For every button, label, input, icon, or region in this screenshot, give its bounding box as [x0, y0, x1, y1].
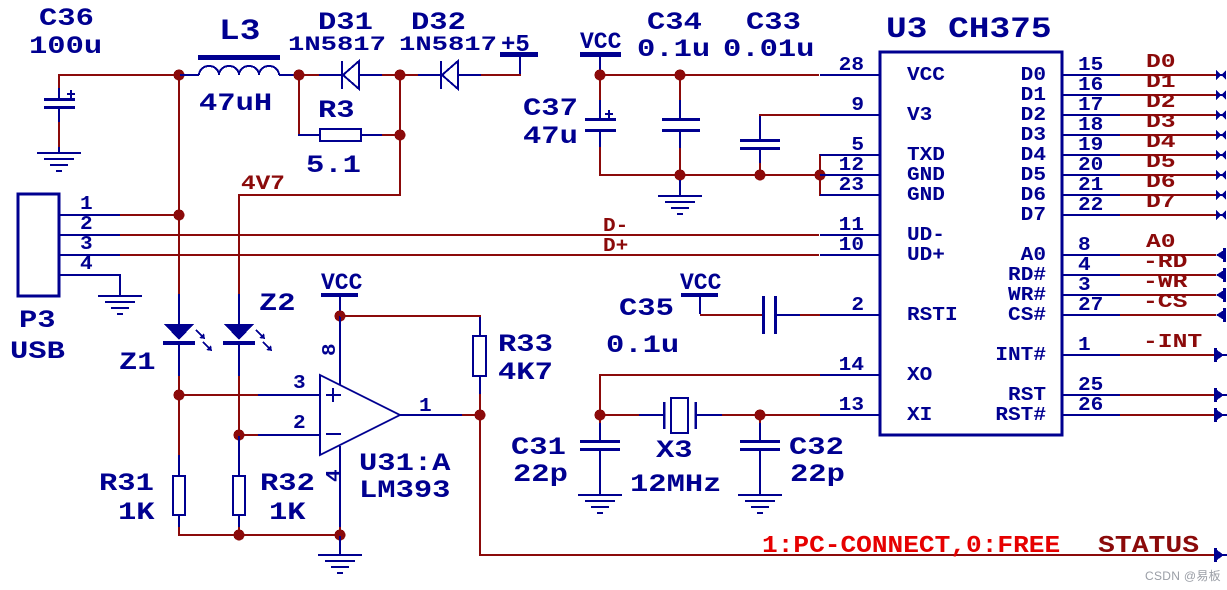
label U31:A [359, 450, 451, 478]
capacitor C32 [740, 416, 780, 494]
svg-text:19: 19 [1078, 135, 1103, 157]
label net -INT [1143, 331, 1202, 353]
svg-text:12: 12 [839, 155, 864, 177]
svg-text:1K: 1K [269, 499, 306, 527]
svg-text:1N5817: 1N5817 [399, 34, 497, 57]
pin 21 D6 of U3 [1021, 175, 1120, 207]
label VCC rail [580, 29, 622, 55]
label D31 [318, 9, 373, 37]
power VCC of C35 [680, 270, 722, 314]
capacitor C34 [662, 76, 700, 174]
svg-text:1N5817: 1N5817 [288, 34, 386, 57]
svg-text:R3: R3 [318, 97, 355, 125]
capacitor C37 [585, 76, 616, 176]
label R32 [260, 470, 315, 498]
junction node A [174, 70, 185, 81]
svg-text:D31: D31 [318, 9, 373, 37]
wire net D- horizontal [120, 234, 819, 236]
svg-text:LM393: LM393 [359, 477, 450, 505]
pin 8 wire [320, 316, 342, 385]
svg-text:4V7: 4V7 [241, 172, 285, 195]
svg-text:8: 8 [320, 343, 342, 356]
svg-text:-WR: -WR [1143, 271, 1188, 293]
junction opamp gnd [335, 530, 346, 541]
pin 17 D2 of U3 [1021, 95, 1120, 127]
svg-text:2: 2 [293, 413, 306, 435]
wire net D4 [1120, 154, 1216, 156]
wire net D2 [1120, 114, 1216, 116]
capacitor C33 [740, 116, 780, 174]
svg-text:Z1: Z1 [119, 349, 156, 377]
svg-text:21: 21 [1078, 175, 1103, 197]
label 47uH [199, 90, 272, 118]
wire pin 25 [1120, 394, 1216, 396]
ground of P3 [98, 295, 142, 315]
svg-text:V3: V3 [907, 105, 932, 127]
svg-text:22: 22 [1078, 195, 1103, 217]
capacitor C31 [580, 416, 620, 494]
svg-text:X3: X3 [656, 437, 693, 465]
svg-text:17: 17 [1078, 95, 1103, 117]
pin 2 wire [239, 413, 320, 436]
svg-text:3: 3 [293, 373, 306, 395]
pin 2 of P3 [59, 214, 120, 236]
pin 4 wire [324, 446, 346, 534]
label Z1 [119, 349, 156, 377]
label net -WR [1143, 271, 1188, 293]
inductor L3 [180, 55, 300, 76]
wire pin 26 [1120, 414, 1216, 416]
svg-text:27: 27 [1078, 295, 1103, 317]
port D3 [1216, 130, 1226, 140]
resistor R32 [233, 436, 245, 534]
svg-text:U3 CH375: U3 CH375 [886, 12, 1052, 46]
label P3 [19, 307, 56, 335]
wire XI to pin 13 [760, 414, 820, 416]
wire net D1 [1120, 94, 1216, 96]
svg-text:5.1: 5.1 [306, 152, 361, 180]
label C33 [746, 9, 801, 37]
wire ground bus [599, 174, 820, 176]
label net D2 [1146, 91, 1176, 113]
port -INT [1214, 348, 1227, 362]
svg-text:C37: C37 [523, 95, 578, 123]
wire net D5 [1120, 174, 1216, 176]
label USB [10, 338, 65, 366]
svg-text:26: 26 [1078, 395, 1103, 417]
ground of op-amp [318, 536, 362, 574]
label 47u [523, 123, 578, 151]
wire XO [599, 374, 820, 414]
label C35 [619, 295, 674, 323]
pin 10 UD+ of U3 [820, 235, 945, 267]
svg-text:WR#: WR# [1008, 285, 1046, 307]
junction output-R33 [475, 410, 486, 421]
svg-text:STATUS: STATUS [1098, 532, 1199, 560]
wire pin1 to node [120, 214, 179, 216]
junction gnd bracket [815, 170, 826, 181]
svg-text:GND: GND [907, 185, 945, 207]
pin 11 UD- of U3 [820, 215, 945, 247]
wire net A0 [1120, 254, 1216, 256]
svg-text:D2: D2 [1021, 105, 1046, 127]
svg-text:2: 2 [80, 214, 93, 236]
label net D6 [1146, 171, 1176, 193]
svg-text:D7: D7 [1021, 205, 1046, 227]
svg-text:D0: D0 [1146, 51, 1176, 73]
junction gnd-C34 [675, 170, 686, 181]
svg-text:-INT: -INT [1143, 331, 1202, 353]
svg-text:22p: 22p [513, 461, 568, 489]
svg-text:1:PC-CONNECT,0:FREE: 1:PC-CONNECT,0:FREE [762, 532, 1060, 560]
junction VCC-C34 [675, 70, 686, 81]
svg-text:U31:A: U31:A [359, 450, 451, 478]
label Z2 [259, 290, 296, 318]
crystal X3 [600, 398, 759, 433]
svg-text:12MHz: 12MHz [630, 471, 721, 499]
wire to D31 [300, 74, 319, 76]
junction D31-D32-R3-4V7 [395, 70, 406, 81]
label 1:PC-CONNECT,0:FREE [762, 532, 1060, 560]
wire Z2 to junction [238, 376, 240, 434]
svg-text:D2: D2 [1146, 91, 1176, 113]
label 1K of R32 [269, 499, 306, 527]
wire VCC to pin 28 [680, 74, 819, 76]
port 25 [1214, 388, 1227, 402]
svg-text:R31: R31 [99, 470, 154, 498]
pin 1 output wire [400, 396, 479, 418]
pin 19 D4 of U3 [1021, 135, 1120, 167]
port D1 [1216, 90, 1226, 100]
pin 3 of P3 [59, 234, 120, 256]
ground of C34 [658, 180, 702, 215]
pin 15 D0 of U3 [1021, 55, 1120, 87]
wire bottom ground rail [178, 534, 341, 536]
label R31 [99, 470, 154, 498]
wire D31 to junction [382, 74, 400, 76]
label 0.01u of C33 [723, 36, 814, 64]
svg-text:1: 1 [419, 396, 432, 418]
port 26 [1214, 408, 1227, 422]
wire net D3 [1120, 134, 1216, 136]
label 22p of C31 [513, 461, 568, 489]
label net D5 [1146, 151, 1176, 173]
svg-text:C36: C36 [39, 5, 94, 33]
svg-text:100u: 100u [29, 33, 102, 61]
wire pin8 node to R33 [340, 315, 481, 317]
label C37 [523, 95, 578, 123]
pin 13 XI of U3 [820, 395, 932, 427]
pin 25 RST of U3 [1008, 375, 1120, 407]
svg-text:R33: R33 [498, 331, 553, 359]
svg-text:11: 11 [839, 215, 864, 237]
svg-text:RST: RST [1008, 385, 1046, 407]
wire net -CS [1120, 314, 1216, 316]
label R33 [498, 331, 553, 359]
port D7 [1216, 210, 1226, 220]
wire output to status line [479, 416, 1216, 556]
svg-text:10: 10 [839, 235, 864, 257]
svg-text:4: 4 [324, 469, 346, 482]
pin 5 TXD of U3 [820, 135, 945, 167]
svg-text:RD#: RD# [1008, 265, 1046, 287]
svg-text:9: 9 [851, 95, 864, 117]
svg-text:INT#: INT# [995, 345, 1046, 367]
pin 26 RST# of U3 [995, 395, 1120, 427]
label +5 [501, 32, 530, 59]
LED Z2 [223, 294, 272, 376]
svg-text:0.01u: 0.01u [723, 36, 814, 64]
svg-text:D4: D4 [1021, 145, 1046, 167]
svg-text:-CS: -CS [1143, 291, 1187, 313]
junction R3 right [395, 130, 406, 141]
svg-text:-RD: -RD [1143, 251, 1187, 273]
svg-text:USB: USB [10, 338, 65, 366]
svg-text:+5: +5 [501, 32, 530, 59]
IC U3 CH375 body [880, 52, 1062, 435]
label C32 [789, 434, 844, 462]
svg-text:20: 20 [1078, 155, 1103, 177]
label D- [603, 216, 628, 238]
svg-text:0.1u: 0.1u [606, 332, 679, 360]
pin 23 GND of U3 [820, 175, 945, 207]
wire VCC rail to C34 [600, 74, 680, 76]
svg-text:D7: D7 [1146, 191, 1176, 213]
svg-text:RSTI: RSTI [907, 305, 958, 327]
connector P3 USB [18, 194, 59, 296]
svg-text:C34: C34 [647, 9, 702, 37]
label X3 [656, 437, 693, 465]
junction VBUS [174, 210, 185, 221]
svg-text:VCC: VCC [321, 270, 363, 296]
junction XI-C32-X3 [755, 410, 766, 421]
op-amp U31:A [320, 375, 400, 455]
svg-text:A0: A0 [1146, 231, 1176, 253]
port A0 [1216, 248, 1226, 262]
svg-text:D32: D32 [411, 9, 466, 37]
diode D31 [319, 61, 382, 89]
ground of C31 [578, 494, 622, 514]
svg-text:0.1u: 0.1u [637, 36, 710, 64]
svg-text:D-: D- [603, 216, 628, 238]
svg-text:GND: GND [907, 165, 945, 187]
wire net D7 [1120, 214, 1216, 216]
svg-text:C33: C33 [746, 9, 801, 37]
wire net -INT [1120, 354, 1216, 356]
junction Z1-R31-opamp [174, 390, 185, 401]
svg-text:D0: D0 [1021, 65, 1046, 87]
svg-text:D1: D1 [1021, 85, 1046, 107]
svg-text:14: 14 [839, 355, 864, 377]
svg-text:5: 5 [851, 135, 864, 157]
svg-text:8: 8 [1078, 235, 1091, 257]
pin 22 D7 of U3 [1021, 195, 1120, 227]
label net D4 [1146, 131, 1176, 153]
label net -RD [1143, 251, 1187, 273]
port D5 [1216, 170, 1226, 180]
port -WR [1216, 288, 1226, 302]
wire to D32 [401, 74, 418, 76]
label C31 [511, 434, 566, 462]
svg-text:RST#: RST# [995, 405, 1046, 427]
power +5 [500, 52, 538, 74]
ground of C32 [738, 494, 782, 514]
svg-text:15: 15 [1078, 55, 1103, 77]
svg-text:D4: D4 [1146, 131, 1176, 153]
label net D7 [1146, 191, 1176, 213]
label L3 [219, 14, 260, 48]
pin 12 GND of U3 [820, 155, 945, 187]
svg-text:C32: C32 [789, 434, 844, 462]
svg-text:4: 4 [1078, 255, 1091, 277]
svg-text:CS#: CS# [1008, 305, 1046, 327]
label net D0 [1146, 51, 1176, 73]
svg-text:A0: A0 [1021, 245, 1046, 267]
wire pin4 to ground [119, 274, 121, 295]
svg-text:Z2: Z2 [259, 290, 296, 318]
svg-text:UD-: UD- [907, 225, 945, 247]
svg-text:47uH: 47uH [199, 90, 272, 118]
svg-text:CSDN @易板: CSDN @易板 [1145, 569, 1221, 583]
port -RD [1216, 268, 1226, 282]
label 1K of R31 [118, 499, 155, 527]
label D32 [411, 9, 466, 37]
pin 4 of P3 [59, 254, 121, 276]
label net D3 [1146, 111, 1176, 133]
svg-text:2: 2 [851, 295, 864, 317]
pin 3 WR# of U3 [1008, 275, 1120, 307]
label 0.1u of C35 [606, 332, 679, 360]
svg-text:47u: 47u [523, 123, 578, 151]
wire net -RD [1120, 274, 1216, 276]
label 100u [29, 33, 102, 61]
svg-text:VCC: VCC [580, 29, 622, 55]
label net D1 [1146, 71, 1176, 93]
capacitor C35 [700, 296, 820, 334]
pin 18 D3 of U3 [1021, 115, 1120, 147]
svg-text:VCC: VCC [907, 65, 945, 87]
svg-text:D6: D6 [1021, 185, 1046, 207]
svg-text:D5: D5 [1021, 165, 1046, 187]
pin 2 RSTI of U3 [820, 295, 958, 327]
junction gnd-C33 [755, 170, 766, 181]
port D2 [1216, 110, 1226, 120]
port -CS [1216, 308, 1226, 322]
svg-text:R32: R32 [260, 470, 315, 498]
wire top rail left [58, 74, 180, 76]
label LM393 [359, 477, 450, 505]
watermark [1145, 569, 1221, 583]
label 4K7 [498, 359, 553, 387]
port STATUS arrow [1214, 548, 1227, 562]
svg-text:4K7: 4K7 [498, 359, 553, 387]
label 12MHz [630, 471, 721, 499]
svg-text:P3: P3 [19, 307, 56, 335]
svg-text:D3: D3 [1021, 125, 1046, 147]
svg-text:3: 3 [1078, 275, 1091, 297]
pin 4 RD# of U3 [1008, 255, 1120, 287]
label net -CS [1143, 291, 1187, 313]
label 1N5817 of D32 [399, 34, 497, 57]
svg-text:3: 3 [80, 234, 93, 256]
resistor R31 [173, 396, 185, 536]
label C36 [39, 5, 94, 33]
svg-text:22p: 22p [790, 461, 845, 489]
pin 14 XO of U3 [820, 355, 932, 387]
label 22p of C32 [790, 461, 845, 489]
wire net D+ horizontal [120, 254, 819, 256]
svg-text:XO: XO [907, 365, 932, 387]
label 0.1u of C34 [637, 36, 710, 64]
svg-text:D3: D3 [1146, 111, 1176, 133]
svg-text:16: 16 [1078, 75, 1103, 97]
pin 27 CS# of U3 [1008, 295, 1120, 327]
junction VCC-C37 [595, 70, 606, 81]
junction Z2-R32-opamp [234, 430, 245, 441]
label 4V7 [241, 172, 285, 195]
pin 8 A0 of U3 [1021, 235, 1120, 267]
pin 16 D1 of U3 [1021, 75, 1120, 107]
svg-text:1K: 1K [118, 499, 155, 527]
pin 9 V3 of U3 [820, 95, 932, 127]
junction L3-D31-R3 [294, 70, 305, 81]
wire net D0 [1120, 74, 1216, 76]
svg-text:L3: L3 [219, 14, 260, 48]
svg-text:XI: XI [907, 405, 932, 427]
wire V3 pin to C33 [759, 114, 820, 116]
ground of C36 [37, 152, 81, 172]
svg-text:13: 13 [839, 395, 864, 417]
svg-text:TXD: TXD [907, 145, 945, 167]
label U3 CH375 [886, 12, 1052, 46]
svg-text:D1: D1 [1146, 71, 1176, 93]
svg-text:C31: C31 [511, 434, 566, 462]
label R3 [318, 97, 355, 125]
svg-text:VCC: VCC [680, 270, 722, 296]
svg-text:UD+: UD+ [907, 245, 945, 267]
svg-text:D5: D5 [1146, 151, 1176, 173]
svg-text:28: 28 [839, 55, 864, 77]
label C34 [647, 9, 702, 37]
svg-text:18: 18 [1078, 115, 1103, 137]
pin 1 INT# of U3 [995, 335, 1120, 367]
wire net -WR [1120, 294, 1216, 296]
svg-text:1: 1 [1078, 335, 1091, 357]
wire VBUS vertical [178, 76, 180, 294]
pin 1 of P3 [59, 194, 120, 216]
wire net D6 [1120, 194, 1216, 196]
wire gnd bracket pins 5-12-23 [819, 154, 821, 196]
label 1N5817 of D31 [288, 34, 386, 57]
label STATUS [1098, 532, 1199, 560]
junction pin8-R33 [335, 311, 346, 322]
svg-text:D6: D6 [1146, 171, 1176, 193]
diode D32 [418, 61, 481, 89]
wire net 4V7 [238, 76, 401, 294]
svg-text:25: 25 [1078, 375, 1103, 397]
power VCC of op-amp [321, 270, 363, 316]
port D6 [1216, 190, 1226, 200]
pin 28 VCC of U3 [820, 55, 945, 87]
svg-text:4: 4 [80, 254, 93, 276]
port D0 [1216, 70, 1226, 80]
svg-text:C35: C35 [619, 295, 674, 323]
pin 20 D5 of U3 [1021, 155, 1120, 187]
svg-text:D+: D+ [603, 236, 628, 258]
label net A0 [1146, 231, 1176, 253]
LED Z1 [163, 294, 212, 376]
wire Z1 to junction [178, 376, 180, 394]
